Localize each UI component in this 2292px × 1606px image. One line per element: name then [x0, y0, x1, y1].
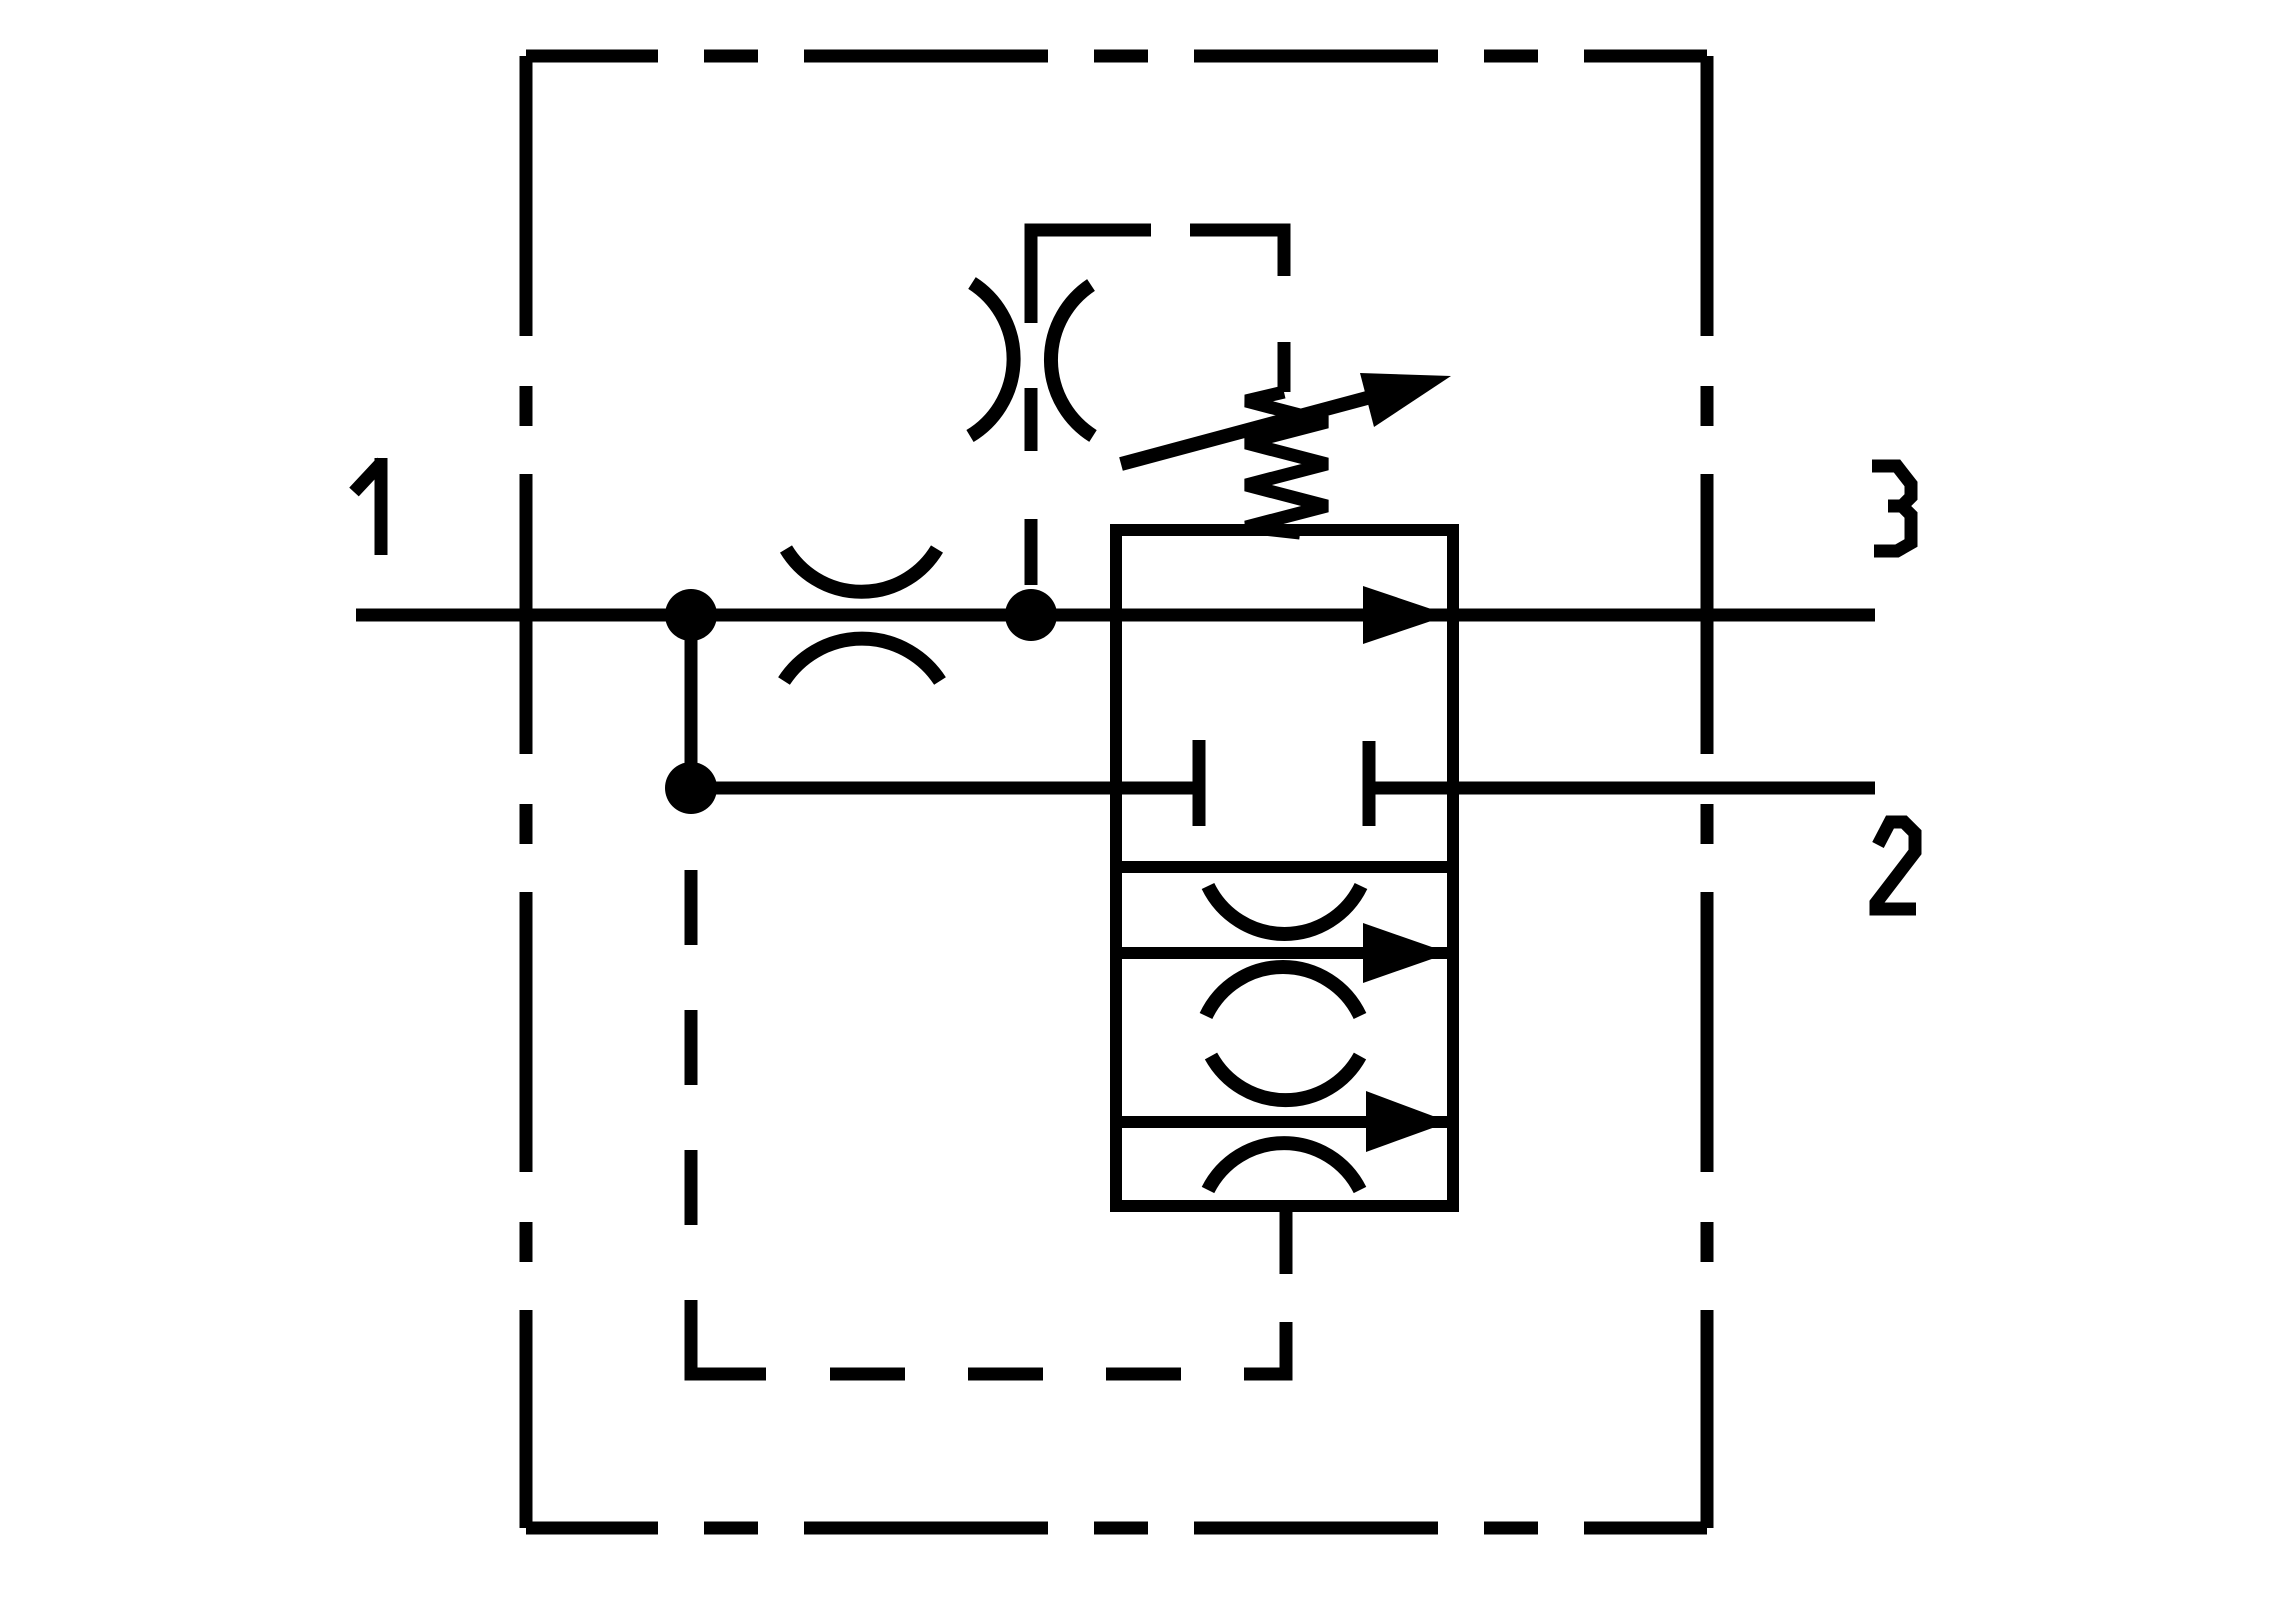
node J2 (junction dot on main line, pilot tap)	[1005, 589, 1057, 641]
valve body V1 (pressure compensator envelope)	[1116, 530, 1453, 1206]
adjustment arrow head	[1360, 373, 1451, 427]
valve section divider 1	[1116, 861, 1453, 873]
arrowhead flow path section 3	[1366, 1091, 1449, 1152]
orifice O2 on pilot line (fixed restriction, vertical flow)	[970, 283, 1093, 436]
arrowhead main flow path at port 3 side	[1363, 586, 1449, 644]
spring (adjustable relief setting)	[1246, 392, 1327, 533]
adjustment arrow shaft across spring	[1121, 398, 1367, 464]
enclosure boundary left (dash-dot)	[520, 56, 533, 1528]
valve flow line with arrow (section 2)	[1116, 947, 1453, 959]
piston / blocked port symbol left bar	[1193, 740, 1206, 826]
orifice O4 arcs on section-3 flow line	[1208, 1056, 1360, 1190]
port 2 label	[1876, 822, 1916, 909]
orifice O1 on main line (fixed restriction)	[784, 549, 940, 681]
port 1 label	[354, 458, 382, 555]
node J3 (junction dot on port 2 line)	[665, 762, 717, 814]
orifice O3 arcs on section-2 flow line	[1206, 886, 1361, 1016]
node J1 (junction dot on main line)	[665, 589, 717, 641]
wire: port 2 line left segment	[691, 782, 1199, 795]
enclosure boundary bottom (dash-dot)	[526, 1522, 1707, 1535]
piston / blocked port symbol right bar	[1363, 741, 1376, 826]
valve flow line with arrow (section 3)	[1116, 1116, 1453, 1128]
enclosure boundary top (dash-dot)	[526, 50, 1707, 63]
wire: port 2 line right segment to port 2	[1369, 782, 1875, 795]
port 3 label	[1872, 466, 1911, 551]
pilot line from J2 up and over to relief spring (dashed)	[1031, 230, 1284, 585]
pilot line from J3 down, across and up to valve bottom (dashed)	[691, 870, 1286, 1374]
arrowhead flow path section 2	[1363, 923, 1449, 983]
wire: main line port 1 to port 3	[356, 609, 1875, 622]
enclosure boundary right (dash-dot)	[1701, 56, 1714, 1528]
wire: vertical link J1 to J3	[685, 615, 698, 788]
